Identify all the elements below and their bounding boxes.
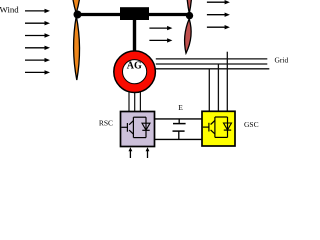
svg-text:E: E xyxy=(178,103,183,112)
svg-text:Wind: Wind xyxy=(0,5,19,15)
svg-text:Grid: Grid xyxy=(275,56,289,65)
svg-text:AG: AG xyxy=(127,60,142,71)
svg-text:GSC: GSC xyxy=(244,120,259,129)
svg-text:RSC: RSC xyxy=(99,119,113,128)
